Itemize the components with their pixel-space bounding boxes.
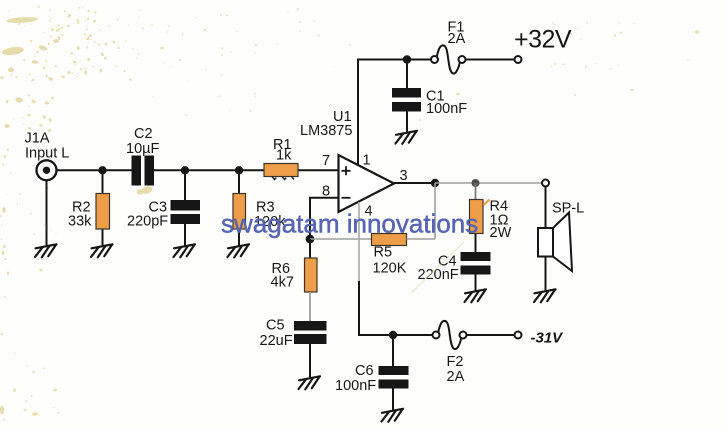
fuse F2 — [433, 321, 467, 385]
svg-text:33k: 33k — [68, 214, 92, 230]
node E (output junction) — [431, 179, 439, 187]
net +32V — [514, 26, 572, 64]
resistor R5 — [372, 234, 436, 277]
node F (R4 junction) — [472, 179, 480, 187]
resistor R6 — [271, 239, 318, 322]
ground — [35, 244, 57, 257]
wire F2 to -31V terminal — [467, 334, 515, 336]
svg-text:220pF: 220pF — [127, 214, 168, 230]
node A (input junction) — [98, 166, 106, 174]
resistor R4 — [470, 183, 512, 253]
svg-text:-31V: -31V — [531, 329, 565, 346]
svg-text:100nF: 100nF — [426, 101, 467, 117]
svg-text:swagatam innovations: swagatam innovations — [221, 209, 478, 239]
svg-text:2W: 2W — [490, 225, 512, 241]
node C (R3 junction) — [235, 166, 243, 174]
svg-text:7: 7 — [322, 153, 330, 169]
wire op-amp output pin 3 — [394, 182, 435, 184]
ground — [91, 244, 113, 257]
svg-text:J1A: J1A — [25, 131, 50, 147]
scratch artifact — [411, 242, 464, 293]
svg-text:+32V: +32V — [514, 26, 572, 54]
svg-text:2A: 2A — [448, 31, 466, 47]
capacitor C6 — [335, 335, 409, 411]
svg-text:C2: C2 — [134, 126, 153, 142]
capacitor C2 — [126, 126, 159, 186]
resistor R2 — [68, 170, 110, 246]
wire pin 1 to top rail — [358, 60, 431, 166]
svg-text:22uF: 22uF — [260, 333, 293, 349]
wire J1A to ground — [46, 180, 48, 247]
capacitor C5 — [260, 318, 327, 379]
net -31V — [515, 329, 565, 346]
svg-text:Input L: Input L — [25, 146, 69, 162]
svg-text:F2: F2 — [447, 354, 464, 370]
svg-text:120K: 120K — [373, 261, 407, 277]
ground — [299, 376, 321, 389]
ground — [174, 244, 196, 257]
wire pin 4 lower to negative rail — [359, 281, 433, 335]
svg-text:3: 3 — [400, 168, 408, 184]
wire pin 4 upper (gray) — [358, 202, 360, 281]
wire pin 8 — [310, 198, 339, 239]
svg-text:2A: 2A — [447, 369, 465, 385]
ground — [396, 131, 418, 144]
svg-text:LM3875: LM3875 — [300, 123, 352, 139]
resistor R3 — [233, 170, 286, 246]
svg-text:100nF: 100nF — [335, 378, 376, 394]
wire J1A to C2 — [56, 169, 132, 171]
resistor R1 — [264, 137, 298, 180]
fuse F1 — [431, 20, 466, 74]
capacitor C3 — [127, 170, 200, 246]
connector J1A — [25, 131, 70, 181]
capacitor C1 — [392, 60, 467, 134]
svg-text:R5: R5 — [374, 245, 393, 261]
node G (feedback junction) — [306, 235, 315, 244]
capacitor C4 — [418, 252, 491, 292]
svg-text:10µF: 10µF — [126, 141, 159, 157]
speaker SP-L — [538, 180, 584, 292]
svg-text:SP-L: SP-L — [552, 201, 584, 217]
wire F1 to +32V terminal — [466, 59, 515, 61]
wire node G to R5 — [310, 238, 372, 240]
svg-text:4k7: 4k7 — [271, 275, 294, 291]
svg-text:1k: 1k — [276, 148, 292, 164]
wire C2 to op-amp pin 7 — [153, 169, 339, 171]
op-amp U1 — [300, 109, 408, 220]
svg-text:C6: C6 — [355, 363, 374, 379]
wire output to speaker terminal — [435, 182, 542, 184]
ground — [465, 289, 487, 302]
ground — [534, 289, 556, 302]
svg-text:1: 1 — [363, 153, 371, 169]
node H (C6 junction) — [389, 331, 397, 339]
wire feedback vertical — [434, 183, 436, 239]
ground — [382, 409, 404, 422]
node B (C3 junction) — [181, 166, 189, 174]
ground — [228, 244, 250, 257]
node D (C1 junction) — [403, 55, 411, 63]
svg-text:C5: C5 — [266, 318, 285, 334]
